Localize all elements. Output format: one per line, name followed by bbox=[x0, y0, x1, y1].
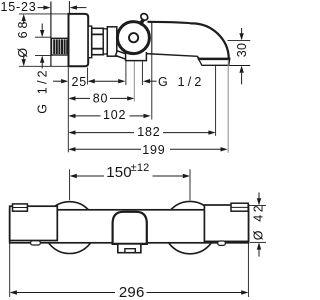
wall line bbox=[50, 2, 52, 67]
svg-text:296: 296 bbox=[119, 284, 145, 300]
left handle clip bbox=[13, 204, 28, 211]
dim Ø68 bbox=[16, 14, 69, 66]
right check valve tab bbox=[218, 241, 226, 245]
washer bbox=[103, 29, 107, 54]
aerator lip bbox=[198, 58, 230, 65]
dim 150±12 bbox=[70, 162, 190, 181]
extension line outlet right bbox=[141, 62, 143, 86]
right handle clip bbox=[231, 203, 248, 211]
dim Ø42 bbox=[249, 193, 266, 257]
svg-text:182: 182 bbox=[137, 125, 160, 139]
dim 30 bbox=[228, 28, 251, 84]
lever handle bbox=[140, 12, 149, 25]
extension line escutcheon front bbox=[87, 68, 89, 85]
svg-text:G 1/2: G 1/2 bbox=[158, 75, 205, 89]
svg-text:15-23: 15-23 bbox=[1, 0, 37, 14]
right escutcheon circle bbox=[164, 201, 216, 253]
dim 102 bbox=[68, 108, 150, 122]
svg-text:G 1/2: G 1/2 bbox=[36, 67, 50, 114]
spout outlet boss bbox=[126, 50, 147, 61]
svg-text:Ø 68: Ø 68 bbox=[16, 18, 30, 57]
center knob bbox=[113, 212, 147, 253]
flange ring bbox=[88, 26, 92, 58]
mixer body bar bbox=[10, 210, 249, 243]
extension line right escutcheon center bbox=[189, 169, 191, 200]
outlet centerline bbox=[133, 62, 135, 102]
dim 296 bbox=[10, 244, 249, 300]
escutcheon left extension up bbox=[68, 1, 70, 14]
extension line outlet left bbox=[125, 62, 127, 86]
dim 182 bbox=[68, 125, 215, 139]
extension line spout seam bbox=[151, 54, 153, 120]
dim G 1/2 wall thread bbox=[35, 24, 51, 114]
svg-text:102: 102 bbox=[103, 108, 126, 122]
extension line aerator bbox=[215, 65, 217, 136]
svg-text:150: 150 bbox=[106, 164, 132, 181]
spout underside bbox=[146, 54, 199, 59]
extension line escutcheon back bbox=[67, 68, 69, 153]
dim 199 bbox=[68, 143, 227, 157]
valve body circle bbox=[117, 22, 149, 54]
svg-text:80: 80 bbox=[93, 92, 109, 106]
spout seam bbox=[151, 22, 153, 54]
svg-text:±12: ±12 bbox=[131, 162, 150, 174]
right handle bbox=[204, 205, 248, 241]
dim G 1/2 outlet bbox=[118, 75, 204, 89]
left handle bbox=[10, 206, 58, 240]
extension line left escutcheon center bbox=[69, 169, 71, 200]
handle screw bbox=[129, 33, 138, 42]
spout top outline bbox=[148, 22, 229, 59]
extension line spout tip bbox=[227, 60, 229, 153]
svg-text:30: 30 bbox=[235, 43, 249, 58]
threaded nipple bbox=[52, 38, 69, 55]
diverter knob bbox=[116, 51, 129, 60]
dim 15-23 bbox=[1, 0, 87, 14]
left check valve tab bbox=[31, 241, 41, 245]
union nut bbox=[92, 28, 104, 54]
dim 80 bbox=[68, 92, 134, 106]
valve inlet body bbox=[107, 27, 117, 56]
svg-text:199: 199 bbox=[142, 143, 165, 157]
wall escutcheon (side view) bbox=[69, 14, 89, 66]
svg-text:Ø 42: Ø 42 bbox=[251, 203, 265, 241]
left escutcheon circle bbox=[44, 202, 96, 254]
dim 25 bbox=[53, 75, 119, 89]
svg-text:25: 25 bbox=[72, 75, 88, 89]
